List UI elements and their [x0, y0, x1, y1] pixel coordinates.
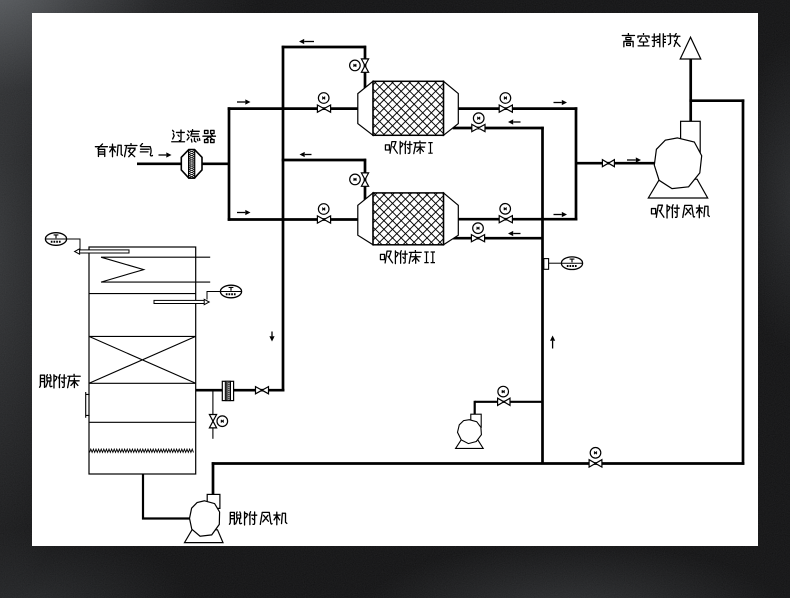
flow arrow desorb manifold up [552, 341, 554, 349]
label 过滤器 [172, 130, 185, 142]
label 脱附床 [40, 375, 52, 388]
wire: pump riser stub [474, 401, 476, 415]
flow arrow top return [304, 41, 314, 43]
flow arrow bed II return [513, 233, 520, 235]
instrument T-400 top left [67, 239, 81, 251]
wire: bed II mid return line [282, 159, 366, 162]
wire: fan feed line [576, 162, 655, 165]
flow arrow return manifold down [271, 332, 273, 337]
wire: pump discharge line [475, 401, 543, 403]
wire: return manifold vertical [282, 46, 285, 392]
vessel: desorption bed 脱附床 [89, 247, 196, 474]
wire: right riser vertical [742, 99, 745, 464]
wire: bed I lower return line [453, 127, 544, 130]
label 脱附风机 [229, 512, 241, 524]
wire: bed II outlet line [457, 218, 577, 221]
lance nozzle top [78, 250, 130, 253]
partition line lower [89, 421, 196, 423]
wire: desorb fan outlet riser [212, 462, 215, 495]
valve drain (vertical) [209, 415, 216, 428]
flow arrow fan feed [627, 159, 636, 161]
instrument T-401 mid right [207, 292, 221, 300]
adsorption bed I 吸附床I [358, 81, 373, 135]
label 吸附风机 [651, 205, 663, 217]
valve desorb feed [256, 387, 269, 394]
wire: supply manifold vertical [228, 107, 231, 220]
label 吸附床II [380, 251, 392, 263]
flow arrow bed II outlet [554, 214, 562, 216]
wire: desorb bed bottom drop [142, 474, 144, 520]
valve bed II supply [317, 216, 330, 223]
flow arrow inlet [159, 154, 167, 156]
wire: waste gas inlet line [137, 162, 230, 165]
label 高空排放 [622, 33, 634, 47]
flow arrow bed I return [513, 121, 520, 123]
flow arrow bed I supply [237, 101, 245, 103]
adsorption bed II 吸附床II [358, 193, 373, 245]
label 吸附床I [385, 142, 397, 154]
wire: drain stub below desorb feed [212, 390, 214, 439]
lance nozzle mid [154, 300, 205, 303]
flow arrow mid return [305, 154, 312, 156]
label 有机废气 [95, 144, 107, 157]
exhaust stack triangle 高空排放 [680, 37, 701, 59]
flow arrow bed II supply [237, 212, 245, 214]
wire: bed II supply branch [228, 218, 359, 221]
heater coil zigzag [101, 257, 210, 282]
valve fan feed [602, 160, 614, 167]
filter 过滤器 [181, 150, 202, 179]
instrument T-402 on desorb manifold [544, 259, 549, 270]
valve bed I supply [317, 105, 330, 112]
wire: exhaust stack line [689, 58, 692, 122]
wire: bed I outlet line [457, 107, 577, 110]
valve bed II top (vertical) [361, 173, 368, 186]
wire: desorb manifold vertical [541, 127, 544, 464]
manway tab [86, 392, 90, 418]
adsorption fan 吸附风机 [648, 179, 707, 198]
pump bottom middle [456, 439, 484, 449]
desorption fan 脱附风机 [185, 530, 224, 543]
valve bed II outlet [499, 216, 512, 223]
wire: bed I top feed vertical [364, 46, 367, 90]
wire: bed II lower return line [453, 237, 543, 240]
valve bed I return [472, 124, 485, 131]
valve bottom header [589, 460, 602, 467]
valve bed I top (vertical) [361, 59, 368, 72]
wire: top right link [689, 99, 744, 102]
valve bed I outlet [499, 105, 512, 112]
X packing section [89, 336, 196, 383]
partition line [89, 293, 196, 295]
valve bed II return [471, 235, 484, 242]
filter component on desorb feed [222, 381, 233, 400]
wire: outlet junction vertical [575, 107, 578, 220]
wire: bed II top feed vertical [364, 159, 367, 201]
valve pump discharge [498, 398, 510, 405]
wire: bed I supply branch [228, 107, 359, 110]
liquid sawtooth [90, 449, 194, 452]
flow arrow bed I outlet [554, 102, 562, 104]
wire: bottom header line [212, 462, 745, 465]
wire: desorb feed to bed [196, 389, 285, 392]
wire: bed I top return line [282, 46, 366, 49]
